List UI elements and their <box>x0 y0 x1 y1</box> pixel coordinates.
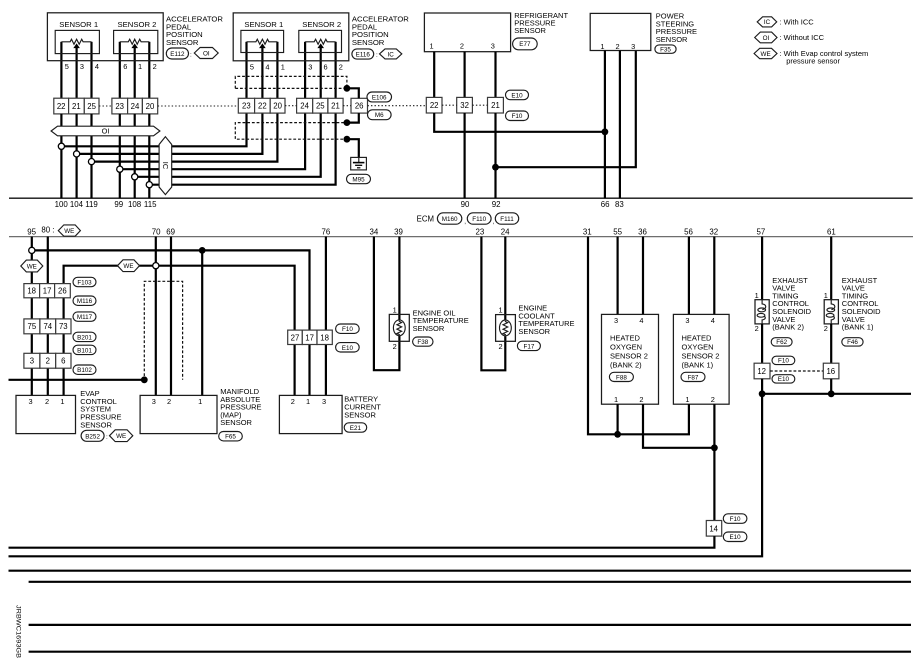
wire E77 t21 branch to F35 pin3 <box>496 51 636 168</box>
svg-text:SENSOR: SENSOR <box>166 38 199 47</box>
variant tag OI hexagon <box>194 48 218 59</box>
junction circle wire119 <box>88 159 94 165</box>
connector F46 oval <box>842 338 863 347</box>
connector terminal 16 <box>823 363 839 379</box>
wire 69 down to MAP pin2 <box>170 237 172 396</box>
wire 56 to F87 pin3 <box>688 237 690 315</box>
svg-text:E77: E77 <box>519 41 531 48</box>
F87 pin numbers <box>685 316 715 404</box>
ECM top edge line <box>9 197 913 199</box>
dashed link terminal 12 to 16 <box>770 370 823 372</box>
connector B252 oval <box>81 430 104 441</box>
svg-text:99: 99 <box>114 200 123 209</box>
connector E10 oval (t14) <box>723 532 747 542</box>
wire junction row to E116 pin6 <box>135 113 321 177</box>
sensor EVAP box <box>16 395 76 433</box>
connector F87 oval <box>681 372 705 381</box>
svg-text:F35: F35 <box>660 46 671 53</box>
E116 sensor1 wiper arrow <box>259 43 266 48</box>
svg-text:32: 32 <box>460 101 469 110</box>
wire 61 to solenoid F46 <box>830 237 832 302</box>
connector F65 oval <box>219 432 243 441</box>
wire E112 pin4 <box>90 42 92 99</box>
connector F38 oval <box>413 337 433 346</box>
E116 sensor2 inner box <box>299 30 342 52</box>
E116 pin numbers <box>250 62 343 71</box>
svg-text:F17: F17 <box>523 343 534 350</box>
label ENGINE OIL TEMPERATURE SENSOR <box>413 308 469 333</box>
svg-text:104: 104 <box>70 200 84 209</box>
svg-text:M117: M117 <box>77 314 93 321</box>
svg-text:31: 31 <box>583 227 592 236</box>
wire E116 pin5 <box>245 42 247 99</box>
label ACCELERATOR PEDAL POSITION SENSOR (E116) <box>352 15 409 47</box>
wire E116 pin1 <box>276 42 278 99</box>
svg-text:E10: E10 <box>511 92 523 99</box>
svg-text:SENSOR: SENSOR <box>352 38 385 47</box>
svg-text:22: 22 <box>57 102 66 111</box>
svg-text:(BANK 1): (BANK 1) <box>842 323 874 332</box>
svg-text:32: 32 <box>709 227 718 236</box>
dotted link 21-26 <box>343 105 351 107</box>
connector E10 oval (t12) <box>772 375 795 384</box>
svg-text:2: 2 <box>499 342 503 351</box>
E112 sensor2 potentiometer <box>120 39 150 44</box>
dotted link 26 to E77 row <box>368 105 427 107</box>
svg-text:: Without ICC: : Without ICC <box>780 33 825 42</box>
wire E116 pin6 (wiper) <box>320 47 322 98</box>
wire E112 pin6 <box>119 42 121 99</box>
svg-text:90: 90 <box>461 200 470 209</box>
dotted link 22-32 <box>442 104 457 106</box>
svg-text:70: 70 <box>152 227 161 236</box>
svg-text:5: 5 <box>65 62 69 71</box>
wire junction dot upper to terminal 26 <box>347 88 359 98</box>
junction dot mid <box>344 119 351 126</box>
label EVAP CONTROL SYSTEM PRESSURE SENSOR <box>80 389 121 429</box>
sensor F38 box <box>389 314 409 341</box>
label BATTERY CURRENT SENSOR <box>344 394 381 419</box>
E112 sensor2 wiper arrow <box>131 43 138 48</box>
WE hexagon on wire 95 <box>21 260 43 272</box>
wire branch 70 to terminal 26 and battery pin2 <box>64 266 295 396</box>
svg-text:56: 56 <box>684 227 693 236</box>
F46 pin numbers <box>824 291 828 333</box>
MAP pin numbers <box>152 397 203 406</box>
svg-text:6: 6 <box>123 62 127 71</box>
svg-text:E112: E112 <box>170 51 185 58</box>
svg-text:3: 3 <box>80 62 84 71</box>
svg-text:M6: M6 <box>375 112 384 119</box>
svg-text:E21: E21 <box>350 425 362 432</box>
OI banner <box>51 126 160 136</box>
svg-text:OXYGEN: OXYGEN <box>682 343 714 352</box>
wire E77 pin3 <box>494 52 496 98</box>
svg-text:2: 2 <box>45 397 49 406</box>
wire E77 pin1 <box>433 52 435 98</box>
svg-text:2: 2 <box>291 397 295 406</box>
wire 23 to F17 pin2 <box>481 237 505 371</box>
svg-text:2: 2 <box>615 42 619 51</box>
wire 32 to F87 pin4 <box>713 237 715 315</box>
junction circle wire108 <box>132 174 138 180</box>
sensor E112 outer box <box>47 13 163 61</box>
wire 95 down to EVAP pin3 <box>31 237 33 396</box>
wire 76 down to battery pin3 <box>325 237 327 396</box>
svg-text:26: 26 <box>58 287 67 296</box>
connector F88 oval <box>609 372 633 381</box>
svg-text:20: 20 <box>273 102 282 111</box>
svg-text:80 :: 80 : <box>41 225 54 234</box>
connector F10 oval (t12) <box>772 356 795 365</box>
svg-text:55: 55 <box>613 227 622 236</box>
E112 sensor1 inner box <box>55 30 99 53</box>
junction dot dashed loop <box>141 376 148 383</box>
wire MAP pin1 <box>201 250 203 395</box>
svg-text:1: 1 <box>138 62 142 71</box>
variant tag IC hexagon <box>380 49 402 59</box>
svg-text:F62: F62 <box>776 339 787 346</box>
svg-text:18: 18 <box>27 287 36 296</box>
wire terminal 16 to bus <box>830 379 832 394</box>
svg-text:21: 21 <box>72 102 81 111</box>
connector E112 oval <box>166 48 188 59</box>
label HEATED OXYGEN SENSOR 2 (BANK 2) <box>610 334 648 370</box>
F17 pin numbers <box>499 306 503 352</box>
WE hexagon on wire 70 branch <box>118 260 140 272</box>
svg-text:F46: F46 <box>847 339 858 346</box>
wire E116 pin4 (wiper) <box>261 47 263 98</box>
svg-text:SENSOR: SENSOR <box>344 411 376 420</box>
variant tag WE hexagon (B252) <box>110 430 133 442</box>
solenoid F46 box <box>824 300 838 324</box>
connector F111 <box>495 213 518 224</box>
wire bus y651 <box>29 651 911 653</box>
svg-text:1: 1 <box>306 397 310 406</box>
svg-text::: : <box>190 52 192 59</box>
svg-text:1: 1 <box>685 395 689 404</box>
connector row: terminals 27 17 18 <box>288 330 333 344</box>
svg-text:SENSOR 2: SENSOR 2 <box>302 20 341 29</box>
E116 sensor2 wiper arrow <box>317 43 324 48</box>
wire 55 to F88 pin3 <box>616 237 618 315</box>
svg-text:(BANK 2): (BANK 2) <box>772 323 804 332</box>
svg-text:20: 20 <box>146 102 155 111</box>
svg-text:1: 1 <box>824 291 828 300</box>
connector B102 oval <box>73 365 96 374</box>
connector F17 oval <box>517 341 540 350</box>
wire bus y570 <box>9 570 912 572</box>
connector M6 oval <box>368 110 392 120</box>
label POWER STEERING PRESSURE SENSOR <box>656 12 697 44</box>
svg-text:2: 2 <box>46 357 50 366</box>
svg-text:F10: F10 <box>778 358 789 365</box>
dashed variant loop lower <box>235 123 344 140</box>
svg-text:WE: WE <box>27 263 37 270</box>
svg-text:69: 69 <box>166 227 175 236</box>
svg-text:2: 2 <box>755 324 759 333</box>
sensor F87 box <box>673 314 729 404</box>
ECM pin numbers top row <box>55 200 625 209</box>
wire bus y581 <box>29 581 911 583</box>
svg-text:F103: F103 <box>77 280 92 287</box>
svg-text:E10: E10 <box>729 534 741 541</box>
ground symbol M95 <box>351 157 367 170</box>
svg-text:76: 76 <box>322 227 331 236</box>
svg-text:25: 25 <box>87 102 96 111</box>
wire stub to page edge y379 <box>9 379 145 381</box>
svg-text:2: 2 <box>167 397 171 406</box>
svg-text:115: 115 <box>144 200 157 209</box>
wire 36 to F88 pin4 <box>642 237 644 315</box>
svg-text:23: 23 <box>115 102 124 111</box>
label EXHAUST VALVE TIMING CONTROL SOLENOID VALVE (BANK 2) <box>772 276 811 332</box>
svg-text:SENSOR: SENSOR <box>656 35 688 44</box>
label HEATED OXYGEN SENSOR 2 (BANK 1) <box>682 334 720 370</box>
E116 sensor1 inner box <box>241 30 284 52</box>
junction dot F35 pin1 <box>602 128 609 135</box>
wire junction row to E116 pin5 <box>61 113 246 146</box>
svg-text:E10: E10 <box>342 345 354 352</box>
connector F103 oval <box>73 277 96 286</box>
svg-text:92: 92 <box>492 200 501 209</box>
svg-text:F88: F88 <box>616 375 627 382</box>
svg-text:SENSOR 2: SENSOR 2 <box>118 20 157 29</box>
wire junction dot lower to ground <box>347 139 359 157</box>
svg-text:SENSOR: SENSOR <box>80 420 112 429</box>
connector M160 <box>437 213 461 224</box>
wire 57 to solenoid F62 <box>761 237 763 302</box>
svg-text:F87: F87 <box>688 375 699 382</box>
IC banner <box>159 137 172 195</box>
connector row: terminals 3 2 6 <box>24 353 71 368</box>
svg-text:B201: B201 <box>77 334 92 341</box>
ground connector M95 oval <box>347 174 371 183</box>
junction dot wire61 <box>828 390 835 397</box>
svg-text:24: 24 <box>501 227 510 236</box>
svg-text:WE: WE <box>123 263 133 270</box>
svg-text:1: 1 <box>600 42 604 51</box>
wire F62 to terminal 12 <box>761 324 763 363</box>
wire E116 pin2 <box>335 42 337 99</box>
connector F35 oval <box>655 45 676 54</box>
connector F10 oval (t14) <box>723 514 747 524</box>
svg-text:3: 3 <box>308 62 312 71</box>
solenoid F46 coil <box>826 300 835 324</box>
svg-text:95: 95 <box>27 227 36 236</box>
svg-text:1: 1 <box>393 305 397 314</box>
sensor MAP box <box>140 395 217 433</box>
svg-text:HEATED: HEATED <box>682 334 712 343</box>
connector F62 oval <box>771 338 792 347</box>
svg-text:66: 66 <box>601 200 610 209</box>
connector M116 oval <box>73 296 96 305</box>
svg-text:27: 27 <box>291 333 300 342</box>
dashed loop upper bottom edge <box>235 87 344 89</box>
connector row E112: terminals 22 21 25 23 24 20 <box>54 98 158 114</box>
connector E116 oval <box>352 49 374 59</box>
svg-text:24: 24 <box>300 102 309 111</box>
svg-text:74: 74 <box>43 322 52 331</box>
svg-text:SENSOR: SENSOR <box>514 26 546 35</box>
svg-text::: : <box>376 52 378 59</box>
svg-text:75: 75 <box>28 322 37 331</box>
svg-text:22: 22 <box>258 102 267 111</box>
svg-text:23: 23 <box>476 227 485 236</box>
svg-text:M116: M116 <box>77 298 93 305</box>
E112 sensor1 potentiometer <box>61 39 91 44</box>
svg-text:2: 2 <box>639 395 643 404</box>
E112 sensor1 wiper arrow <box>73 43 80 48</box>
svg-text:25: 25 <box>316 102 325 111</box>
label REFRIGERANT PRESSURE SENSOR <box>514 11 568 35</box>
connector M117 oval <box>73 312 96 321</box>
F88 pin numbers <box>614 316 644 404</box>
svg-text:6: 6 <box>61 357 65 366</box>
svg-text:M95: M95 <box>352 177 365 184</box>
junction circle wire100 <box>58 143 64 149</box>
svg-text:14: 14 <box>709 524 718 533</box>
connector terminal 12 <box>754 363 770 379</box>
svg-text:2: 2 <box>339 62 343 71</box>
svg-text:4: 4 <box>711 316 715 325</box>
svg-text:,: , <box>464 219 466 226</box>
wire F88 pin2 to F87 pin2 node <box>643 404 714 448</box>
svg-text:2: 2 <box>824 324 828 333</box>
wire E112 pin1 (wiper) <box>134 47 136 98</box>
svg-text:SENSOR 2: SENSOR 2 <box>610 352 648 361</box>
svg-text:6: 6 <box>324 62 328 71</box>
sensor F17 box <box>496 315 516 342</box>
svg-text:ECM: ECM <box>417 215 434 224</box>
svg-text:108: 108 <box>128 200 142 209</box>
svg-text:3: 3 <box>685 316 689 325</box>
svg-text:23: 23 <box>242 102 251 111</box>
junction dot lower <box>344 136 351 143</box>
F35 pin numbers <box>600 42 635 51</box>
junction circle wire70 <box>153 263 159 269</box>
svg-text:WE: WE <box>761 51 771 58</box>
wire junction row to E116 pin2 <box>149 113 335 185</box>
svg-text:F10: F10 <box>730 516 741 523</box>
wire bus y624 <box>29 624 911 626</box>
E112 sensor2 inner box <box>114 30 158 53</box>
wire 34 to F38 pin2 <box>374 237 400 371</box>
label ENGINE COOLANT TEMPERATURE SENSOR <box>518 304 574 336</box>
dashed variant loop at MAP wires <box>144 281 182 380</box>
connector E10 oval <box>506 90 529 100</box>
svg-text:SENSOR 1: SENSOR 1 <box>244 20 283 29</box>
svg-text:34: 34 <box>370 227 379 236</box>
wire E77 t32 to ECM 90 <box>464 113 466 198</box>
svg-text:3: 3 <box>30 357 34 366</box>
svg-text:3: 3 <box>322 397 326 406</box>
svg-text:1: 1 <box>198 397 202 406</box>
svg-text:22: 22 <box>430 101 439 110</box>
svg-text:F10: F10 <box>512 113 523 120</box>
legend WE hexagon <box>754 48 777 58</box>
wire E77 t21 to ECM 92 <box>494 113 496 198</box>
svg-text:26: 26 <box>355 102 364 111</box>
svg-text:1: 1 <box>755 291 759 300</box>
wire F35 pin1 to ECM 66 <box>604 51 606 199</box>
connector E21 oval <box>344 423 367 432</box>
F17 thermistor <box>500 320 512 336</box>
svg-text:JRBWC1693GB: JRBWC1693GB <box>15 605 22 658</box>
svg-text:16: 16 <box>826 367 835 376</box>
svg-text:2: 2 <box>153 62 157 71</box>
wire F87 pin2 to terminal 14 <box>713 404 715 520</box>
WE variant tag at pin 80 <box>58 225 80 236</box>
wire junction row to E116 pin3 <box>120 113 305 169</box>
connector terminal 14 <box>706 521 721 537</box>
svg-text:B252: B252 <box>85 433 100 440</box>
ECM pin numbers bottom row <box>27 225 835 236</box>
svg-text:24: 24 <box>131 102 140 111</box>
junction dot F88 pin1 <box>614 431 621 438</box>
svg-text:IC: IC <box>388 51 395 58</box>
svg-text:3: 3 <box>614 316 618 325</box>
wire E77 t22 to F35 pin1 <box>434 113 605 132</box>
svg-text:F65: F65 <box>225 434 236 441</box>
svg-text::: : <box>106 434 108 441</box>
connector F10 oval (battery) <box>336 324 360 333</box>
svg-text:F110: F110 <box>472 216 486 223</box>
svg-text:2: 2 <box>393 342 397 351</box>
svg-text:(BANK 1): (BANK 1) <box>682 361 714 370</box>
wire terminal 14 to page edge <box>9 536 715 548</box>
wire branch 95 to battery sensor pin1 <box>32 250 310 395</box>
dotted link 25-23 <box>99 105 112 107</box>
legend IC hexagon <box>757 17 777 27</box>
junction dot MAP pin1 branch <box>199 247 206 254</box>
svg-text:F111: F111 <box>500 216 514 223</box>
wire terminal 26 to junction dot mid <box>347 113 359 123</box>
svg-text:IC: IC <box>161 162 170 170</box>
wires E112 terminals down to junctions <box>60 114 62 198</box>
wire E112 pin3 (wiper) <box>75 47 77 98</box>
connector F10 oval <box>506 111 529 121</box>
svg-text:18: 18 <box>320 333 329 342</box>
connector row: terminals 75 74 73 <box>24 319 71 334</box>
svg-text:1: 1 <box>281 62 285 71</box>
svg-text:3: 3 <box>631 42 635 51</box>
legend OI hexagon <box>755 32 777 43</box>
wire 31 to F87 pin1 <box>588 237 689 435</box>
sensor F88 box <box>602 314 659 404</box>
svg-text:21: 21 <box>331 102 340 111</box>
dotted link 20-24 <box>285 105 297 107</box>
svg-text:1: 1 <box>60 397 64 406</box>
svg-text:4: 4 <box>95 62 99 71</box>
svg-text:SENSOR 1: SENSOR 1 <box>59 20 98 29</box>
sensor battery box <box>279 395 342 433</box>
svg-text:SENSOR: SENSOR <box>413 324 445 333</box>
svg-text:pressure sensor: pressure sensor <box>786 57 840 66</box>
svg-text:3: 3 <box>491 41 495 50</box>
svg-text:B101: B101 <box>77 347 92 354</box>
svg-text:2: 2 <box>711 395 715 404</box>
svg-text:5: 5 <box>250 62 254 71</box>
junction dot F87 pin2 <box>711 444 718 451</box>
svg-text:F10: F10 <box>342 326 353 333</box>
svg-text:57: 57 <box>757 227 766 236</box>
wire 70 down to MAP pin3 <box>155 237 157 396</box>
svg-text:12: 12 <box>757 367 766 376</box>
wire 24 to F17 pin1 <box>504 237 506 321</box>
E116 sensor2 potentiometer <box>305 39 336 44</box>
svg-text:M160: M160 <box>442 216 458 223</box>
